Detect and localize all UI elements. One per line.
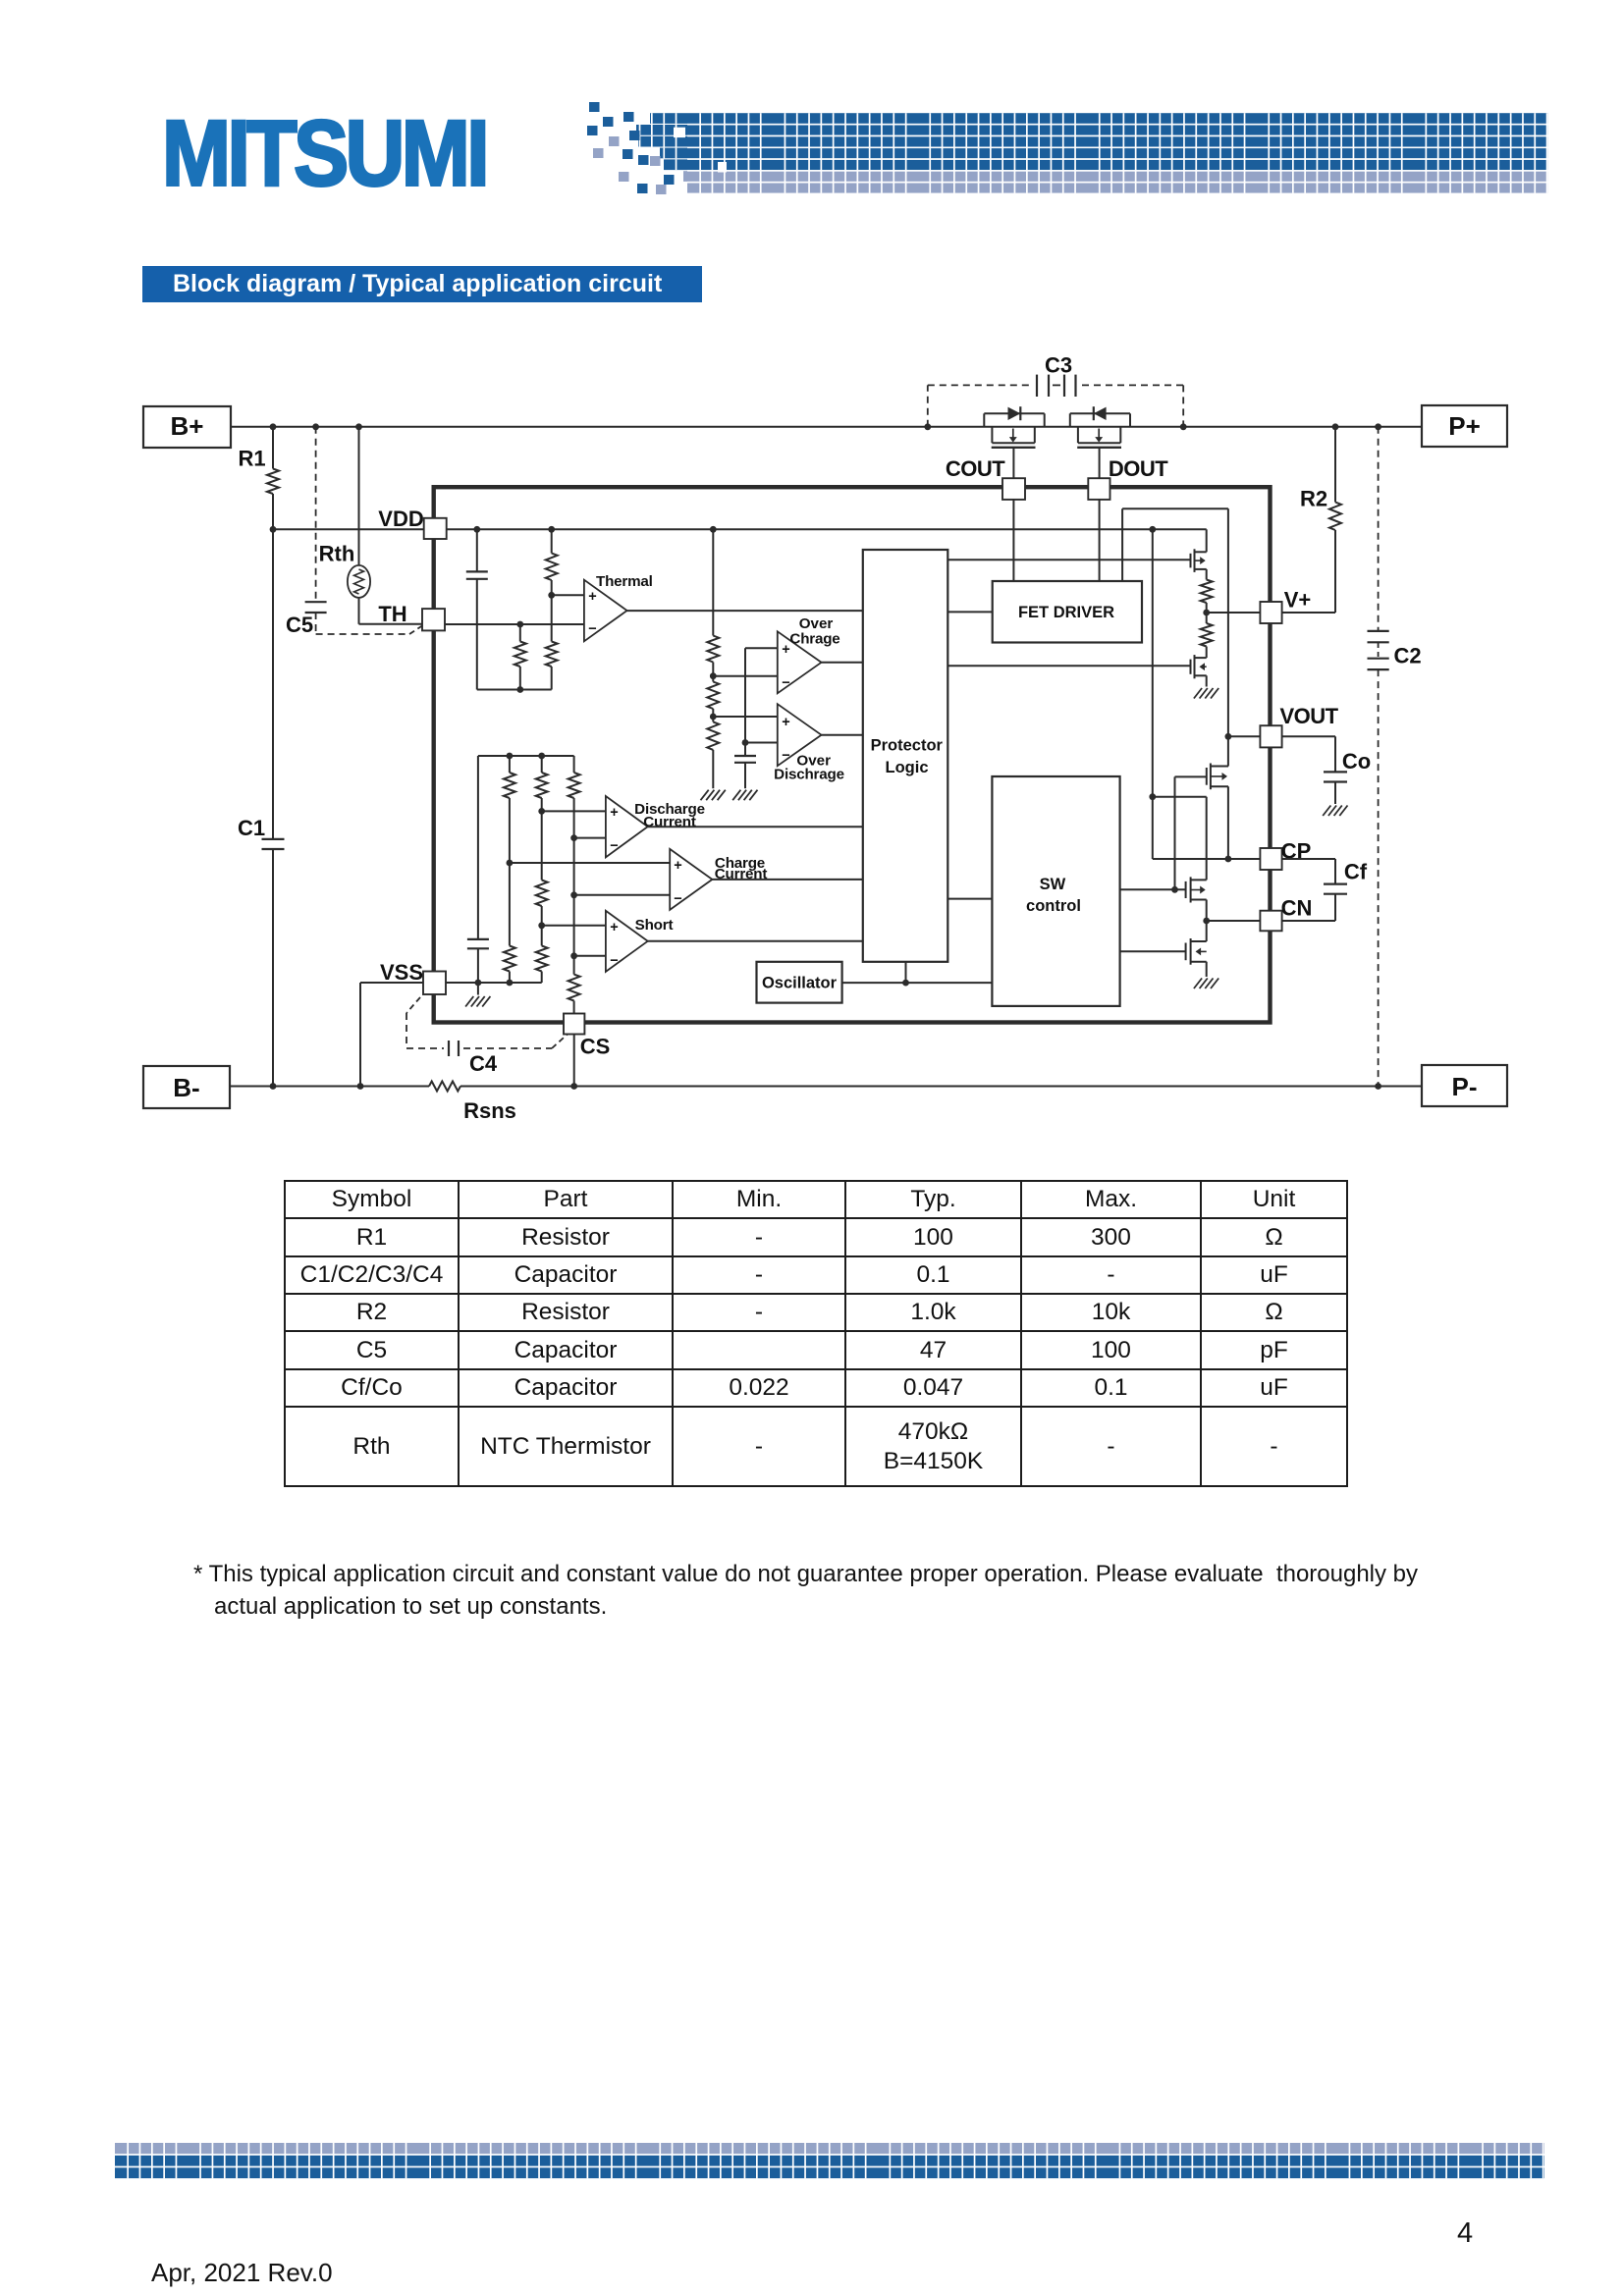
svg-text:Dischrage: Dischrage <box>774 767 844 783</box>
op-amp Over Dischrage comparator <box>774 704 844 782</box>
pin DOUT <box>1088 456 1168 581</box>
pin VOUT <box>1260 704 1338 747</box>
svg-text:Rth: Rth <box>319 542 355 566</box>
svg-text:C2: C2 <box>1393 644 1421 668</box>
resistor internal Rb <box>1201 613 1213 658</box>
block Protector Logic <box>863 550 948 962</box>
wire overdischarge output <box>822 734 863 736</box>
wire Q6 to Q7 rail <box>1206 900 1208 942</box>
resistor internal R lower (x561) <box>546 595 558 689</box>
wire CS to sense node <box>573 1035 575 1087</box>
ground Co <box>1323 806 1347 817</box>
op-amp Discharge Current comparator <box>606 796 705 857</box>
svg-text:−: − <box>782 748 789 764</box>
resistor Rsns <box>429 1082 516 1124</box>
terminal B+ <box>143 406 231 448</box>
resistor R1 <box>238 427 279 530</box>
wire discharge current plus <box>542 810 606 812</box>
resistor internal Ra <box>1201 569 1213 615</box>
wire short minus <box>574 955 606 957</box>
svg-text:−: − <box>610 953 618 969</box>
svg-text:Oscillator: Oscillator <box>762 975 838 992</box>
resistor net R3a (x584) <box>568 756 580 975</box>
svg-text:VSS: VSS <box>380 960 423 985</box>
wire gate Q7 from SW control <box>1120 950 1186 952</box>
svg-text:−: − <box>782 675 789 691</box>
capacitor C5 (dashed option) <box>286 427 422 637</box>
svg-text:+: + <box>588 589 596 605</box>
ground divider <box>701 790 726 801</box>
capacitor internal (ref filter) <box>734 743 756 789</box>
wire gate drive Q3 <box>947 559 1190 561</box>
transistor Q5 (VOUT switch PMOS) <box>1207 764 1228 790</box>
resistor divider chain (x726) <box>707 529 719 788</box>
wire short plus <box>542 925 606 927</box>
resistor net R2b (x551 mid) <box>536 811 548 929</box>
pin CS <box>564 1014 610 1059</box>
wire VOUT internal <box>1225 733 1261 740</box>
resistor net R2c (x551 low) <box>536 926 548 983</box>
wire overdischarge plus <box>713 716 778 718</box>
svg-text:Short: Short <box>635 917 674 934</box>
resistor R2 <box>1300 427 1341 613</box>
wire Q7 source to ground <box>1206 962 1208 977</box>
wire VDD external <box>270 526 424 533</box>
svg-text:C4: C4 <box>469 1051 498 1076</box>
decorative footer pixel bar <box>115 2143 1544 2180</box>
wire VDD rail corner to Q3 <box>1206 529 1208 552</box>
svg-text:−: − <box>674 891 681 907</box>
op-amp Over Chrage comparator <box>778 615 840 693</box>
svg-text:Over: Over <box>799 615 834 632</box>
pin COUT <box>946 456 1025 581</box>
resistor CS sense (x584 low) <box>568 975 580 1014</box>
IC outline box <box>434 487 1271 1022</box>
wire CN internal <box>1203 918 1260 925</box>
terminal B- <box>143 1066 230 1108</box>
wire R2 to V+ pin <box>1282 612 1335 614</box>
svg-text:P-: P- <box>1452 1072 1478 1101</box>
capacitor C2 (dashed option) <box>1368 427 1422 1087</box>
wire gate drive Q4 <box>947 665 1190 667</box>
node dots top rail <box>270 423 1381 430</box>
block FET DRIVER <box>993 581 1142 643</box>
wire top rail B+ to P+ <box>231 426 1422 428</box>
wire discharge current output <box>648 826 863 828</box>
svg-text:TH: TH <box>378 602 406 626</box>
svg-text:SW: SW <box>1040 876 1066 893</box>
wire charge current minus <box>574 894 671 896</box>
wire protector logic to FET driver <box>947 611 992 613</box>
wire overdischarge minus <box>745 742 778 744</box>
capacitor Cf <box>1282 859 1368 921</box>
ground Q7 <box>1194 979 1218 989</box>
thermistor Rth <box>319 427 422 624</box>
wire CP internal <box>1153 797 1261 863</box>
wire protector logic to oscillator node <box>905 962 907 983</box>
svg-text:+: + <box>674 858 681 874</box>
wire internal cap/resistor bottom <box>477 686 552 693</box>
op-amp Short comparator <box>606 911 674 972</box>
wire thermal output <box>627 610 863 612</box>
svg-text:B-: B- <box>173 1073 199 1102</box>
wire discharge current minus <box>574 837 606 839</box>
wire VSS external <box>360 983 423 1087</box>
transistor Q2 with body diode (DOUT FET) <box>1070 406 1130 478</box>
svg-text:B+: B+ <box>171 411 204 441</box>
terminal P+ <box>1422 405 1507 447</box>
wire overcharge minus <box>713 675 778 677</box>
wire VOUT rail <box>1227 786 1229 859</box>
svg-text:+: + <box>782 715 789 730</box>
svg-text:V+: V+ <box>1284 588 1312 613</box>
svg-text:FET DRIVER: FET DRIVER <box>1018 604 1114 621</box>
resistor internal R (x529) <box>514 624 526 690</box>
resistor internal R upper (thermal +) <box>546 529 558 598</box>
wire oscillator output <box>842 980 993 987</box>
capacitor C1 <box>238 529 285 1086</box>
svg-text:VOUT: VOUT <box>1279 704 1338 728</box>
svg-text:R1: R1 <box>238 447 265 471</box>
svg-text:Co: Co <box>1342 749 1371 774</box>
svg-text:P+: P+ <box>1448 411 1481 441</box>
ground VSS filter <box>465 996 490 1007</box>
transistor Q4 (internal NMOS) <box>1191 655 1207 678</box>
capacitor internal (VDD filter) <box>466 529 488 689</box>
pin CN <box>1260 896 1312 932</box>
resistor net R2a (x551) <box>536 756 548 815</box>
capacitor Co <box>1282 736 1372 804</box>
terminal P- <box>1422 1065 1507 1106</box>
wire Q4 source to ground <box>1206 675 1208 686</box>
pin VSS <box>380 960 446 994</box>
svg-text:Protector: Protector <box>871 737 944 755</box>
wire tap to Q6 rail <box>1153 797 1207 881</box>
svg-text:−: − <box>610 838 618 854</box>
wire TH internal <box>445 621 584 628</box>
svg-text:CS: CS <box>580 1035 611 1059</box>
decorative pixel banner <box>587 102 1548 194</box>
svg-text:Thermal: Thermal <box>596 573 653 590</box>
op-amp Charge Current comparator <box>670 849 767 910</box>
wire gate link vertical <box>1174 776 1176 889</box>
svg-text:C3: C3 <box>1045 353 1072 378</box>
wire reference rail (current comparators) <box>478 753 574 760</box>
svg-text:MITSUMI: MITSUMI <box>162 102 486 206</box>
wire VDD tap vertical <box>1149 529 1156 800</box>
svg-text:R2: R2 <box>1300 487 1327 511</box>
wire bottom rail B- to P- with Rsns gap <box>230 1086 1422 1088</box>
svg-text:CN: CN <box>1281 896 1313 921</box>
svg-text:C1: C1 <box>238 816 265 840</box>
capacitor C3 (dashed option) <box>928 353 1183 427</box>
svg-text:+: + <box>610 920 618 935</box>
ground ref filter <box>732 790 757 801</box>
svg-text:−: − <box>588 621 596 637</box>
svg-text:COUT: COUT <box>946 456 1005 481</box>
op-amp Thermal comparator <box>584 573 653 641</box>
pin VDD <box>378 507 446 539</box>
capacitor internal (VSS filter) <box>467 756 489 995</box>
transistor Q1 with body diode (COUT FET) <box>984 406 1044 478</box>
wire overcharge plus <box>745 647 778 649</box>
svg-text:Cf: Cf <box>1344 860 1368 884</box>
transistor Q7 (internal NMOS) <box>1186 938 1207 965</box>
svg-text:Chrage: Chrage <box>789 631 839 648</box>
MITSUMI logo <box>162 102 486 206</box>
wire internal VDD rail <box>447 526 1207 533</box>
wire protector logic to SW control <box>947 898 992 900</box>
wire thermal plus input <box>552 594 584 596</box>
block SW control <box>992 776 1119 1006</box>
transistor Q6 (internal PMOS) <box>1186 877 1207 902</box>
svg-text:C5: C5 <box>286 613 313 637</box>
wire overcharge output <box>822 662 863 664</box>
pin CP <box>1260 839 1311 871</box>
wire gate Q5 <box>1175 775 1207 777</box>
ground Q4 <box>1194 688 1218 699</box>
resistor net R1b (x518 low) <box>504 863 515 983</box>
pin TH <box>378 602 445 630</box>
wire gate Q6 from SW control <box>1120 886 1186 893</box>
wire FET driver feedback loop <box>1122 508 1228 766</box>
resistor net R1a (x518) <box>504 756 515 866</box>
svg-text:+: + <box>610 805 618 821</box>
pin V+ <box>1260 588 1311 624</box>
svg-text:VDD: VDD <box>378 507 423 531</box>
wire charge current plus <box>510 862 670 864</box>
wire V+ internal <box>1207 612 1261 614</box>
wire VSS internal <box>446 980 542 987</box>
block Oscillator <box>757 962 842 1003</box>
node dots bottom rail <box>270 1083 1381 1090</box>
svg-text:Logic: Logic <box>886 759 929 776</box>
transistor Q3 (internal PMOS) <box>1191 549 1207 572</box>
wire charge current output <box>712 879 862 881</box>
capacitor C4 (dashed) <box>406 997 568 1076</box>
svg-text:Current: Current <box>643 814 696 830</box>
wire comparator ref vertical <box>742 648 749 746</box>
wire short output <box>648 940 863 942</box>
svg-text:DOUT: DOUT <box>1109 456 1168 481</box>
svg-text:control: control <box>1026 897 1081 915</box>
svg-text:Rsns: Rsns <box>463 1098 516 1123</box>
